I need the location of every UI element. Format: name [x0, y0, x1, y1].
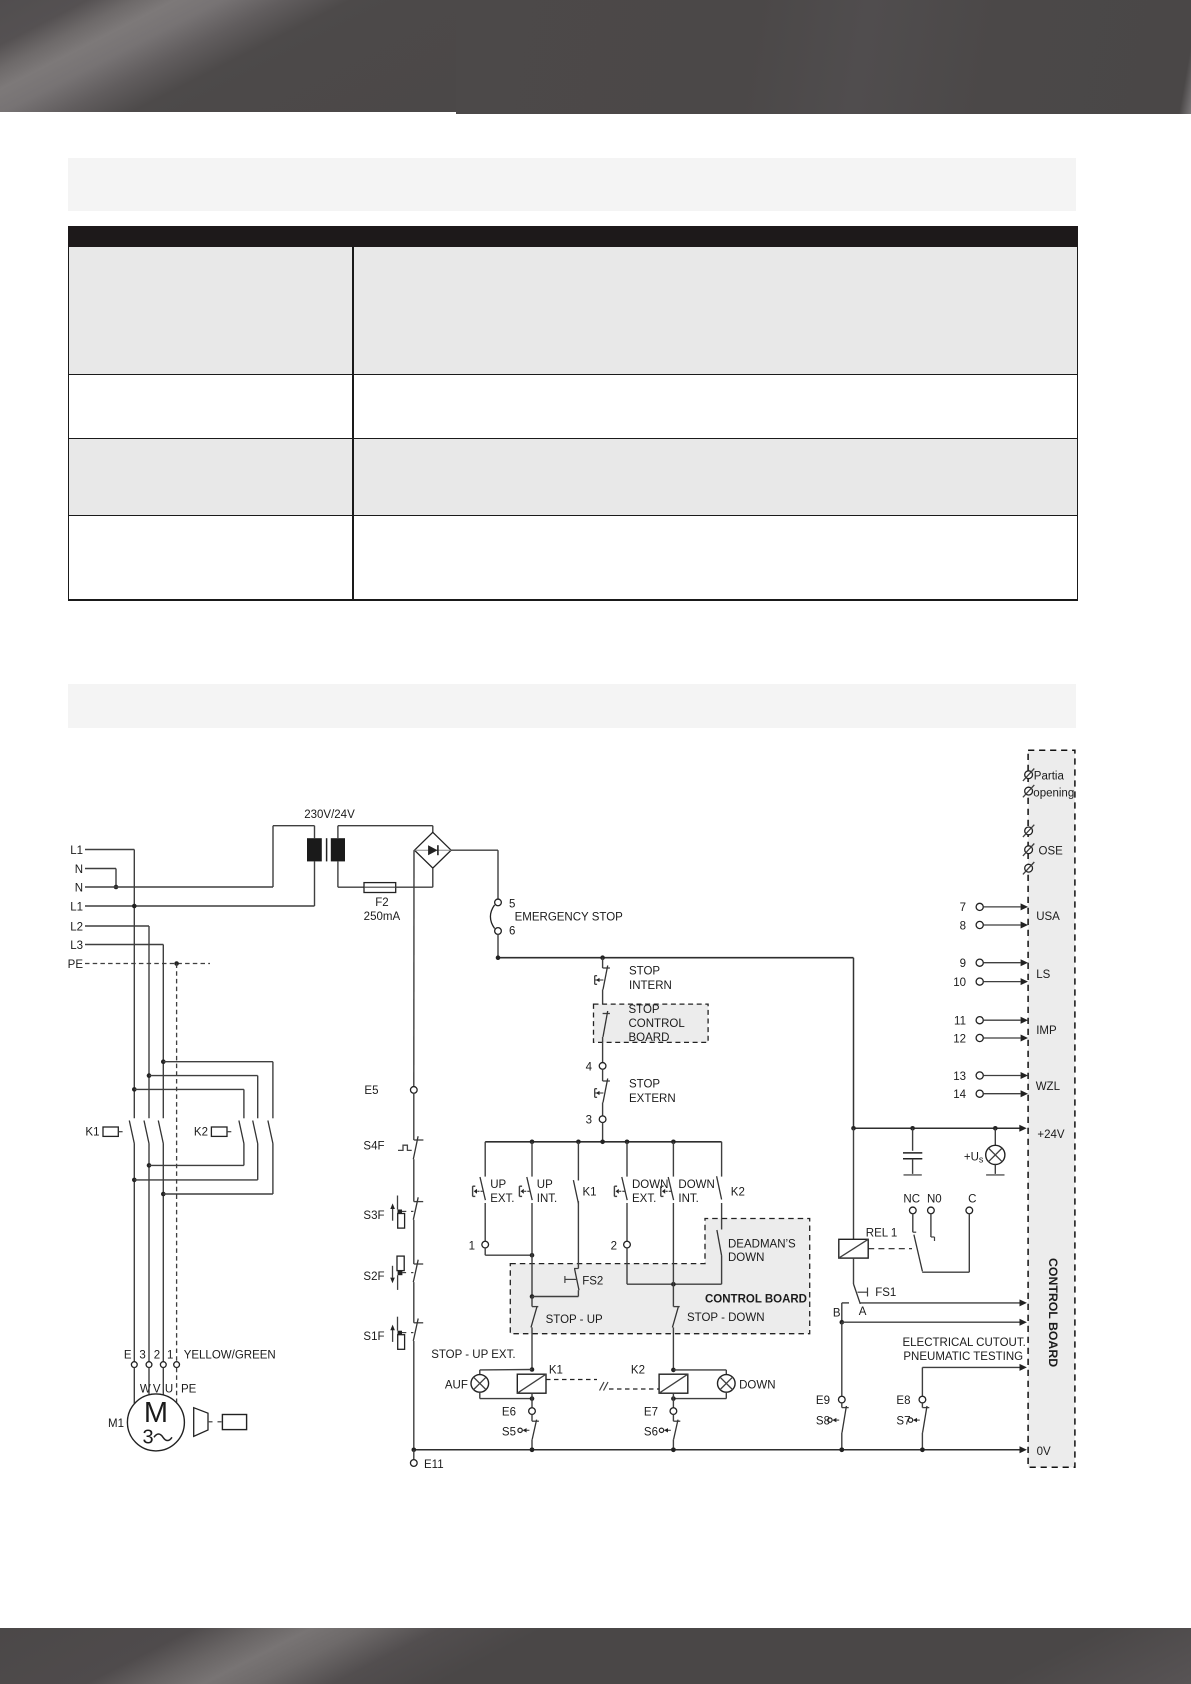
svg-text:M: M	[144, 1397, 168, 1429]
svg-text:11: 11	[954, 1016, 966, 1028]
svg-text:ELECTRICAL CUTOUT.: ELECTRICAL CUTOUT.	[902, 1337, 1025, 1349]
svg-text:STOP: STOP	[629, 966, 660, 978]
svg-text:BOARD: BOARD	[629, 1032, 670, 1044]
svg-text:INT.: INT.	[678, 1193, 698, 1205]
svg-text:E9: E9	[816, 1395, 830, 1407]
svg-text:1: 1	[167, 1350, 173, 1362]
svg-text:EXT.: EXT.	[490, 1193, 514, 1205]
svg-text:EMERGENCY STOP: EMERGENCY STOP	[515, 912, 624, 924]
svg-text:NC: NC	[903, 1194, 920, 1206]
svg-text:3: 3	[586, 1115, 592, 1127]
svg-text:4: 4	[586, 1061, 593, 1073]
svg-text:L1: L1	[70, 901, 83, 913]
svg-text:FS2: FS2	[582, 1275, 603, 1287]
svg-text:INT.: INT.	[537, 1193, 557, 1205]
svg-text:EXT.: EXT.	[632, 1193, 656, 1205]
svg-text:250mA: 250mA	[364, 911, 401, 923]
svg-text:CONTROL BOARD: CONTROL BOARD	[1046, 1258, 1060, 1367]
svg-text:USA: USA	[1036, 911, 1060, 923]
svg-text:S3F: S3F	[363, 1210, 384, 1222]
svg-text:DOWN: DOWN	[728, 1252, 764, 1264]
svg-text:K1: K1	[85, 1127, 99, 1139]
svg-text:PE: PE	[68, 959, 84, 971]
svg-text:DOWN: DOWN	[739, 1380, 775, 1392]
svg-text:Partia: Partia	[1034, 771, 1065, 783]
svg-text:E7: E7	[644, 1407, 658, 1419]
svg-text:+24V: +24V	[1037, 1129, 1065, 1141]
svg-text:12: 12	[953, 1033, 966, 1045]
svg-text:STOP - UP: STOP - UP	[546, 1314, 603, 1326]
svg-text:S6: S6	[644, 1427, 658, 1439]
svg-text:LS: LS	[1036, 969, 1050, 981]
svg-text:F2: F2	[375, 897, 388, 909]
svg-text:IMP: IMP	[1036, 1025, 1057, 1037]
svg-text:UP: UP	[490, 1179, 506, 1191]
svg-text:14: 14	[953, 1089, 966, 1101]
svg-text:E: E	[124, 1350, 132, 1362]
svg-text:230V/24V: 230V/24V	[304, 809, 355, 821]
svg-text:L2: L2	[70, 921, 83, 933]
svg-text:S2F: S2F	[363, 1271, 384, 1283]
svg-text:7: 7	[960, 902, 966, 914]
svg-text:E5: E5	[364, 1085, 378, 1097]
svg-text:N0: N0	[927, 1194, 942, 1206]
svg-text:C: C	[968, 1194, 976, 1206]
svg-text:K1: K1	[549, 1365, 563, 1377]
svg-text:DOWN: DOWN	[678, 1179, 714, 1191]
svg-text:K2: K2	[194, 1127, 208, 1139]
svg-text:INTERN: INTERN	[629, 980, 672, 992]
svg-text:N: N	[75, 864, 83, 876]
svg-text:3: 3	[139, 1350, 145, 1362]
svg-text:UP: UP	[537, 1179, 553, 1191]
svg-text:U: U	[165, 1383, 173, 1395]
svg-text:S8: S8	[816, 1415, 830, 1427]
svg-text:STOP: STOP	[629, 1004, 660, 1016]
svg-text:L1: L1	[70, 845, 83, 857]
svg-text:PNEUMATIC TESTING: PNEUMATIC TESTING	[903, 1351, 1023, 1363]
svg-text:EXTERN: EXTERN	[629, 1093, 676, 1105]
svg-text:STOP: STOP	[629, 1079, 660, 1091]
svg-text:DOWN: DOWN	[632, 1179, 668, 1191]
svg-text:STOP - DOWN: STOP - DOWN	[687, 1312, 765, 1324]
svg-text:8: 8	[960, 920, 966, 932]
svg-text:K1: K1	[583, 1186, 597, 1198]
svg-text:AUF: AUF	[445, 1380, 468, 1392]
svg-text:DEADMAN’S: DEADMAN’S	[728, 1238, 796, 1250]
svg-text:M1: M1	[108, 1418, 124, 1430]
svg-text:2: 2	[611, 1240, 617, 1252]
svg-text:9: 9	[960, 958, 966, 970]
svg-text:opening: opening	[1033, 787, 1074, 799]
svg-text:STOP - UP EXT.: STOP - UP EXT.	[431, 1349, 515, 1361]
svg-text:FS1: FS1	[875, 1287, 896, 1299]
svg-text:K2: K2	[731, 1186, 745, 1198]
svg-text:L3: L3	[70, 940, 83, 952]
svg-text:+Us: +Us	[964, 1151, 984, 1164]
svg-text:K2: K2	[631, 1365, 645, 1377]
svg-text:PE: PE	[181, 1383, 197, 1395]
svg-text:E6: E6	[502, 1407, 516, 1419]
svg-text:S4F: S4F	[363, 1140, 384, 1152]
svg-text:6: 6	[509, 925, 515, 937]
svg-text:WZL: WZL	[1036, 1081, 1061, 1093]
svg-text:N: N	[75, 882, 83, 894]
svg-text:S7: S7	[896, 1415, 910, 1427]
svg-text:YELLOW/GREEN: YELLOW/GREEN	[184, 1350, 276, 1362]
svg-text:E11: E11	[424, 1459, 444, 1471]
svg-text:1: 1	[469, 1240, 475, 1252]
svg-text:CONTROL: CONTROL	[629, 1018, 686, 1030]
svg-text:OSE: OSE	[1039, 845, 1064, 857]
svg-text:B: B	[833, 1308, 841, 1320]
svg-text:0V: 0V	[1037, 1446, 1051, 1458]
svg-text:S1F: S1F	[363, 1331, 384, 1343]
svg-text:A: A	[859, 1306, 867, 1318]
svg-text:REL 1: REL 1	[866, 1228, 898, 1240]
svg-text:CONTROL BOARD: CONTROL BOARD	[705, 1294, 807, 1306]
svg-text:13: 13	[953, 1071, 966, 1083]
svg-text:S5: S5	[502, 1427, 516, 1439]
svg-text:E8: E8	[896, 1395, 910, 1407]
svg-text:3: 3	[142, 1427, 153, 1449]
svg-text:2: 2	[154, 1350, 160, 1362]
svg-text:10: 10	[953, 977, 966, 989]
svg-text:5: 5	[509, 898, 515, 910]
